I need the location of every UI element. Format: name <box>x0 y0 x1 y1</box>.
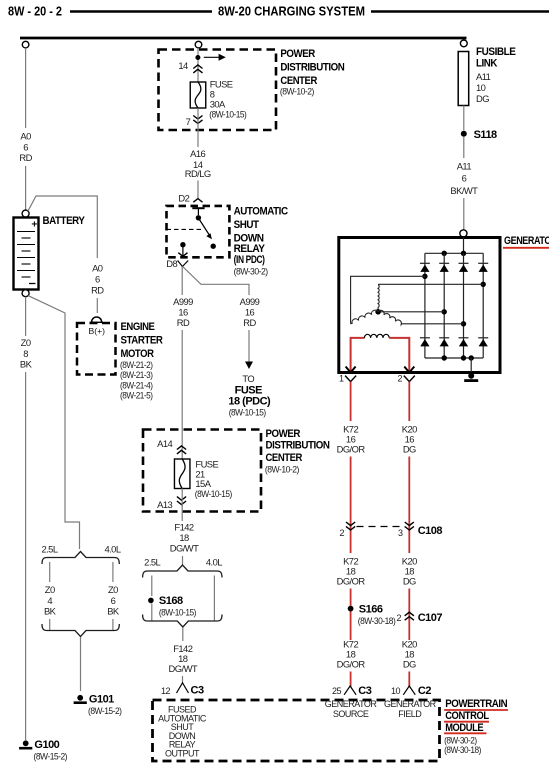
svg-text:RD: RD <box>177 317 190 328</box>
relay common contact <box>196 215 201 220</box>
splice S118 <box>461 131 467 137</box>
svg-text:2.5L: 2.5L <box>41 544 57 555</box>
svg-text:12: 12 <box>161 686 171 696</box>
wire A999 left lower to PDC2 <box>181 330 183 459</box>
svg-text:GENERATOR: GENERATOR <box>325 699 378 709</box>
svg-text:DG: DG <box>403 575 416 586</box>
node stator phase C to column 3 <box>461 321 466 326</box>
node bottom bus junction c2 <box>442 355 447 360</box>
svg-text:8W-20 CHARGING SYSTEM: 8W-20 CHARGING SYSTEM <box>218 4 365 19</box>
terminal 1 exit arrow <box>346 367 356 373</box>
node D8 junction chevron <box>178 261 189 267</box>
svg-text:2: 2 <box>398 374 403 384</box>
wire K20 18 to C107 <box>408 589 410 641</box>
svg-text:CONTROL: CONTROL <box>445 710 489 722</box>
wire battery negative branch to engine blocks <box>28 296 80 549</box>
diode D6 bottom <box>439 337 449 339</box>
wire K20 16 lower <box>408 457 410 554</box>
wire F142 to PCM <box>182 676 184 683</box>
diode D4 top <box>478 262 488 264</box>
svg-text:RD: RD <box>91 285 104 296</box>
wire generator ground <box>470 358 472 372</box>
underline GENERATOR red <box>503 247 549 249</box>
wire A16 14 RD/LG upper <box>197 130 199 147</box>
svg-text:A13: A13 <box>157 499 172 510</box>
connector pin 12 C3 chevron <box>177 683 189 693</box>
wire K72 18 mid <box>350 589 352 641</box>
node battery negative terminal <box>22 290 29 297</box>
connector pin A14 chevrons <box>177 446 186 450</box>
svg-text:DISTRIBUTION: DISTRIBUTION <box>280 61 344 73</box>
svg-text:POWER: POWER <box>280 48 315 60</box>
node bus terminal fusible link <box>460 40 467 47</box>
svg-text:FUSIBLE: FUSIBLE <box>476 46 516 58</box>
fuse F21 <box>174 459 190 489</box>
ground generator case <box>468 373 474 379</box>
svg-text:LINK: LINK <box>476 58 497 70</box>
svg-text:OUTPUT: OUTPUT <box>165 748 200 758</box>
wire S168 branch lower <box>151 604 153 621</box>
svg-text:2: 2 <box>397 613 402 623</box>
wire K72 16 DG/OR upper <box>350 382 352 421</box>
stator winding phase A diagonal <box>351 310 379 324</box>
rectifier column 2 wire <box>443 253 445 358</box>
svg-text:D2: D2 <box>178 193 189 204</box>
automatic shut down relay box <box>167 206 230 257</box>
svg-text:DG/WT: DG/WT <box>169 663 198 674</box>
wire Z0 8 BK battery to G100 upper <box>25 297 27 336</box>
terminal 2 exit arrow <box>404 367 414 373</box>
svg-text:CENTER: CENTER <box>266 452 303 464</box>
svg-text:G101: G101 <box>89 694 114 706</box>
svg-text:(8W-10-15): (8W-10-15) <box>159 606 196 617</box>
wire K20 16 DG upper <box>408 382 410 421</box>
splice S168 <box>148 598 154 604</box>
svg-text:BK: BK <box>44 606 57 617</box>
connector C108 pin 2 chevrons <box>346 526 355 530</box>
svg-text:A999: A999 <box>240 296 260 307</box>
diode D5 bottom <box>420 337 430 339</box>
node ground stub junction <box>469 355 474 360</box>
connector pin 7 chevrons <box>193 120 202 124</box>
connector pin 25 C3 chevron <box>344 686 356 695</box>
svg-text:(8W-21-5): (8W-21-5) <box>120 389 153 400</box>
svg-text:4.0L: 4.0L <box>206 557 222 568</box>
svg-text:(8W-10-15): (8W-10-15) <box>229 407 266 418</box>
node stator phase A to column 1 <box>422 274 427 279</box>
splitter brace bottom left <box>42 624 119 637</box>
wire A999 right lower to arrow <box>248 330 250 362</box>
node generator B+ terminal <box>460 230 467 237</box>
wire bus to fuse 8 <box>197 48 199 82</box>
splitter brace top right <box>143 565 222 578</box>
svg-text:A11: A11 <box>476 71 491 82</box>
wire A999 branch diagonal to fuse18 <box>183 267 249 296</box>
svg-text:6: 6 <box>95 274 100 285</box>
power distribution center box 1 <box>159 50 277 131</box>
power distribution center box 2 <box>143 430 261 512</box>
ground G100 <box>23 740 29 746</box>
wire branch 4.0L <box>213 576 215 621</box>
wire F142 below splitter <box>182 628 184 642</box>
wire Z0 6 BK upper <box>112 562 114 582</box>
relay contact D8 side <box>180 242 185 247</box>
node bus terminal left <box>22 41 29 48</box>
svg-text:Z0: Z0 <box>45 584 55 595</box>
svg-text:(8W-15-2): (8W-15-2) <box>88 705 122 716</box>
svg-text:FIELD: FIELD <box>398 709 422 719</box>
svg-text:G100: G100 <box>34 739 59 751</box>
svg-text:2: 2 <box>339 528 344 538</box>
wire splitter to G101 <box>80 637 82 691</box>
wire top B+ bus <box>20 37 467 40</box>
node top bus junction c3 <box>461 251 466 256</box>
svg-text:SHUT: SHUT <box>234 219 260 231</box>
svg-text:10: 10 <box>476 82 486 93</box>
battery BAT1 <box>14 218 39 290</box>
svg-text:POWERTRAIN: POWERTRAIN <box>445 698 507 710</box>
connector C108 pin 3 chevrons <box>405 526 414 530</box>
svg-text:GENERATOR: GENERATOR <box>384 699 437 709</box>
svg-text:C2: C2 <box>418 685 431 697</box>
node stator neutral to column 2 <box>442 309 447 314</box>
svg-text:A11: A11 <box>457 160 472 171</box>
connector pin 14 chevrons <box>193 65 202 69</box>
svg-text:18: 18 <box>179 532 189 543</box>
svg-text:C108: C108 <box>418 525 443 537</box>
svg-text:A14: A14 <box>157 438 172 449</box>
svg-text:B(+): B(+) <box>89 326 106 336</box>
svg-text:6: 6 <box>462 172 467 183</box>
stator winding phase C diagonal <box>378 310 401 324</box>
svg-text:RD: RD <box>243 317 256 328</box>
connector pin 10 C2 chevron <box>403 686 415 695</box>
svg-text:C107: C107 <box>418 612 443 624</box>
svg-text:6: 6 <box>23 142 28 153</box>
wire fusible link to S118 <box>463 106 465 131</box>
svg-text:(8W-10-15): (8W-10-15) <box>195 488 232 499</box>
svg-text:1: 1 <box>339 374 344 384</box>
svg-text:MODULE: MODULE <box>445 722 483 734</box>
wire Z0 4 BK upper <box>49 562 51 582</box>
svg-text:(8W-15-2): (8W-15-2) <box>34 751 68 762</box>
connector pin D8 chevron <box>178 253 187 257</box>
generator case box <box>339 238 500 373</box>
svg-text:DG: DG <box>476 93 489 104</box>
wire Z0 6 BK lower <box>112 619 114 631</box>
rectifier bottom bus <box>425 357 483 359</box>
splitter brace bottom right <box>143 615 222 628</box>
svg-text:(8W-30-2): (8W-30-2) <box>234 265 268 276</box>
svg-text:DG: DG <box>403 443 416 454</box>
ground G101 <box>77 695 83 701</box>
title rule left segment <box>70 10 212 13</box>
wire starter feed lower <box>96 298 98 313</box>
svg-text:(8W-10-2): (8W-10-2) <box>280 86 314 97</box>
svg-text:DG/WT: DG/WT <box>170 543 199 554</box>
svg-text:STARTER: STARTER <box>121 335 163 347</box>
rectifier column 4 wire <box>482 253 484 358</box>
stator winding vertical phase B <box>378 285 379 312</box>
svg-text:BATTERY: BATTERY <box>43 215 86 227</box>
svg-text:14: 14 <box>178 60 188 71</box>
wire A999 16 RD left upper <box>181 267 183 296</box>
wire to generator terminal <box>463 198 465 230</box>
svg-text:RD: RD <box>19 152 32 163</box>
svg-text:18 (PDC): 18 (PDC) <box>228 395 271 407</box>
diode D8 bottom <box>478 337 488 339</box>
svg-text:A999: A999 <box>173 296 193 307</box>
svg-text:(8W-10-2): (8W-10-2) <box>265 464 299 475</box>
relay armature arm <box>198 218 210 237</box>
wire A16 14 RD/LG lower <box>197 181 199 199</box>
connector C108 dashed link <box>357 526 404 528</box>
rectifier top bus <box>425 252 483 254</box>
wire F142 stub to splitter <box>182 556 184 565</box>
rectifier column 1 wire <box>424 253 426 358</box>
wire phase C link <box>401 323 464 325</box>
diode D3 top <box>459 262 469 264</box>
splice S166 <box>348 606 354 612</box>
svg-text:10: 10 <box>391 686 401 696</box>
diode D1 top <box>420 262 430 264</box>
arrow feed continues right <box>204 56 220 58</box>
wire generator B+ internal <box>463 238 465 254</box>
svg-text:+: + <box>31 219 37 231</box>
node stator star point <box>375 309 381 315</box>
svg-text:DG/OR: DG/OR <box>337 575 366 586</box>
wire A0 6 RD bus-to-battery lower <box>25 166 27 210</box>
node bus terminal fuse-8 feed <box>195 41 202 48</box>
wire generator field red right <box>389 338 409 371</box>
svg-text:6: 6 <box>111 595 116 606</box>
svg-text:Z0: Z0 <box>21 337 31 348</box>
relay fixed contact bar <box>192 207 204 209</box>
node top bus junction c2 <box>442 251 447 256</box>
svg-text:SOURCE: SOURCE <box>333 709 369 719</box>
svg-text:S118: S118 <box>474 129 497 141</box>
svg-text:F142: F142 <box>174 522 194 533</box>
wire S118 to generator upper <box>463 137 465 158</box>
node stator phase B to column 4 <box>481 282 486 287</box>
svg-text:AUTOMATIC: AUTOMATIC <box>234 206 288 218</box>
engine starter motor box <box>77 323 116 375</box>
wire generator field red left <box>351 338 365 371</box>
svg-text:(8W-10-15): (8W-10-15) <box>209 108 246 119</box>
svg-text:A0: A0 <box>92 263 103 274</box>
connector terminal 2 chevron <box>404 376 415 382</box>
rectifier column 3 wire <box>463 253 465 358</box>
wire fuse 8 out <box>197 108 199 130</box>
svg-text:D8: D8 <box>166 258 177 269</box>
connector pin D2 chevron <box>193 199 202 203</box>
svg-text:S168: S168 <box>159 595 183 607</box>
wire phase B link <box>378 283 483 285</box>
svg-text:C3: C3 <box>191 684 204 696</box>
fusible link <box>458 52 469 106</box>
svg-text:TO: TO <box>242 373 254 384</box>
splitter brace top left <box>42 552 119 565</box>
wire Z0 8 BK lower <box>25 372 27 740</box>
svg-text:BK: BK <box>20 359 33 370</box>
node fuse feed junction <box>195 55 200 60</box>
connector terminal 1 chevron <box>345 376 356 382</box>
svg-text:Z0: Z0 <box>108 584 118 595</box>
node bottom bus junction c3 <box>461 355 466 360</box>
svg-text:POWER: POWER <box>266 428 301 440</box>
svg-text:MOTOR: MOTOR <box>121 348 154 360</box>
svg-text:A0: A0 <box>20 131 31 142</box>
wire S168 branch 2.5L upper <box>151 576 153 597</box>
svg-text:DG/OR: DG/OR <box>337 443 366 454</box>
fuse F8 <box>190 82 206 108</box>
svg-text:25: 25 <box>332 686 342 696</box>
wire phase A link <box>351 276 425 324</box>
svg-text:DG/OR: DG/OR <box>337 658 366 669</box>
wire K20 to PCM <box>408 672 410 688</box>
svg-text:BK/WT: BK/WT <box>450 185 478 196</box>
diode D2 top <box>439 262 449 264</box>
svg-text:A16: A16 <box>190 148 205 159</box>
svg-text:3: 3 <box>398 528 403 538</box>
connector C107 chevrons <box>405 612 414 616</box>
svg-text:8W - 20 - 2: 8W - 20 - 2 <box>8 4 62 19</box>
field winding coil <box>364 334 389 338</box>
wire neutral link <box>378 311 444 313</box>
svg-text:RD/LG: RD/LG <box>185 168 211 179</box>
svg-text:DISTRIBUTION: DISTRIBUTION <box>266 440 330 452</box>
wire K72 to PCM <box>350 672 352 688</box>
svg-text:4: 4 <box>47 595 52 606</box>
svg-text:8: 8 <box>23 348 28 359</box>
svg-text:GENERATOR: GENERATOR <box>504 235 549 247</box>
arrow to fuse 18 <box>245 362 253 370</box>
svg-text:(8W-30-18): (8W-30-18) <box>358 615 396 626</box>
svg-text:BK: BK <box>107 606 120 617</box>
svg-text:(8W-30-18): (8W-30-18) <box>444 744 481 755</box>
svg-text:S166: S166 <box>359 603 383 615</box>
powertrain control module box <box>153 700 440 761</box>
wire K72 16 lower <box>350 457 352 554</box>
wire battery positive to starter motor <box>28 196 97 258</box>
terminal B(+) stud <box>92 317 102 322</box>
relay contact throw <box>211 244 216 249</box>
svg-text:4.0L: 4.0L <box>104 544 120 555</box>
svg-text:2.5L: 2.5L <box>144 557 160 568</box>
node battery positive terminal <box>22 210 29 217</box>
wire A0 6 RD bus-to-battery upper <box>25 48 27 128</box>
wire Z0 4 BK lower <box>49 619 51 631</box>
connector pin A13 chevrons <box>177 501 186 505</box>
svg-text:7: 7 <box>186 116 191 127</box>
wire fuse 21 out <box>181 489 183 522</box>
svg-text:ENGINE: ENGINE <box>121 321 155 333</box>
svg-text:DG: DG <box>403 658 416 669</box>
title rule right segment <box>371 10 549 13</box>
relay coil actuation dashed link <box>167 228 202 230</box>
diode D7 bottom <box>459 337 469 339</box>
svg-text:C3: C3 <box>358 685 371 697</box>
